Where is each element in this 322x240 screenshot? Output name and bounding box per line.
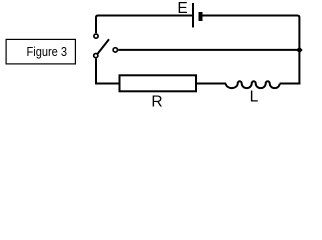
switch top contact circle (94, 34, 98, 38)
svg-text:L: L (250, 89, 259, 106)
wire bottom-left (pole down to resistor) (96, 58, 120, 83)
switch right contact circle (113, 48, 117, 52)
switch pole circle (94, 54, 98, 58)
svg-text:Figure 3: Figure 3 (27, 44, 68, 59)
wire top-right (battery to right rail) (203, 16, 300, 85)
switch blade (open) (98, 39, 109, 54)
svg-text:E: E (177, 0, 187, 17)
resistor R (120, 75, 197, 91)
figure label box (6, 39, 75, 64)
wire top-left (switch to battery) (96, 16, 192, 34)
inductor L coil (226, 81, 280, 88)
wire resistor to inductor (196, 83, 226, 85)
battery E plate long (192, 3, 194, 28)
junction node (296, 47, 303, 54)
svg-text:R: R (151, 94, 162, 111)
battery E plate short thick (199, 12, 203, 21)
wire inductor to right rail (280, 83, 301, 85)
wire middle (contact to right rail) (118, 49, 299, 51)
